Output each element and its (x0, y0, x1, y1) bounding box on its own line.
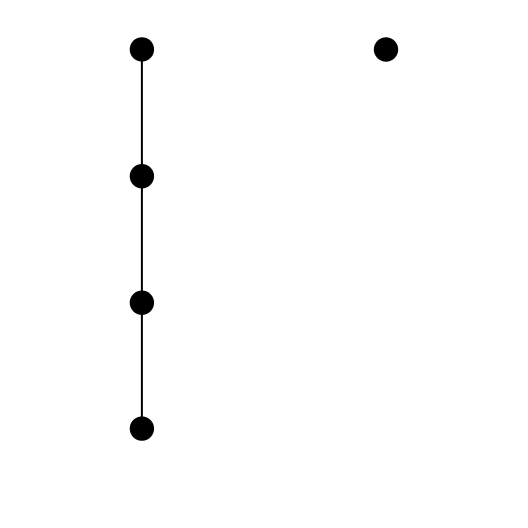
node D (130, 416, 154, 440)
node B (130, 164, 154, 188)
node E (isolated) (374, 37, 398, 61)
node A (130, 37, 154, 61)
wire edge A-B (141, 49, 143, 176)
wire edge C-D (141, 303, 143, 429)
node C (130, 291, 154, 315)
wire edge B-C (141, 176, 143, 303)
